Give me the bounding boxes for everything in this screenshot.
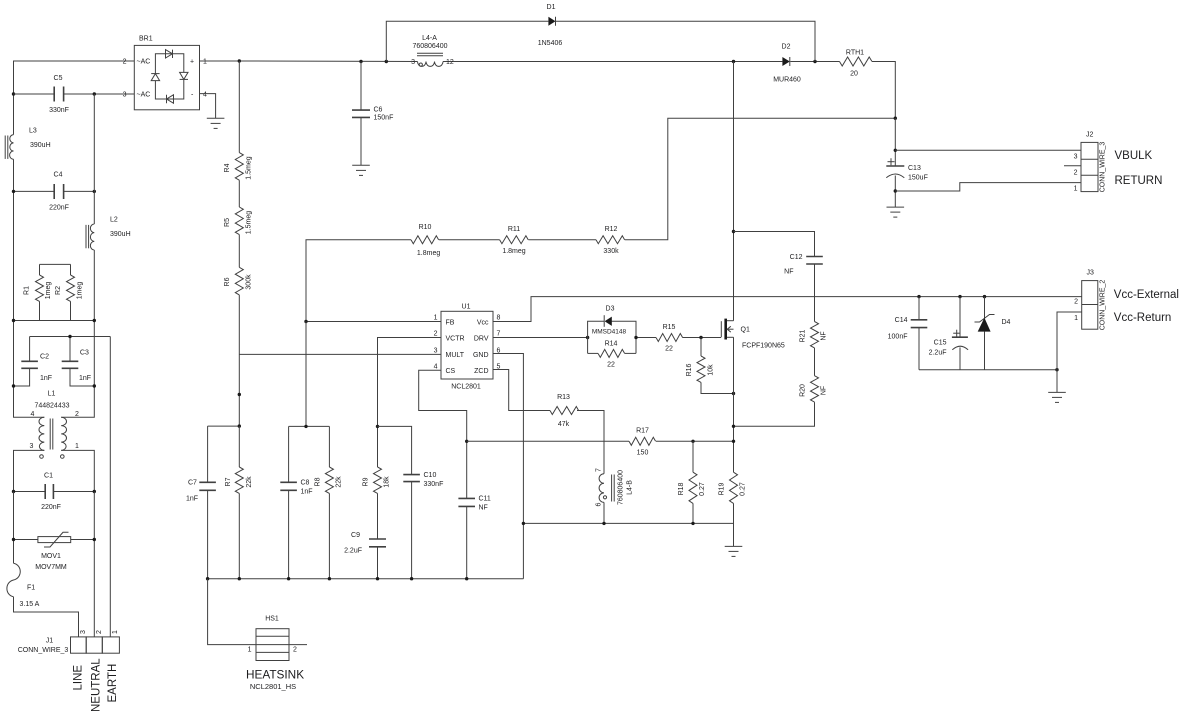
svg-text:MULT: MULT bbox=[446, 352, 465, 359]
capacitor C12 NF bbox=[734, 232, 823, 322]
wire bulk node vertical (x=895.3) bbox=[894, 118, 896, 166]
wire L1 pin3 lead bbox=[14, 450, 45, 491]
svg-text:2: 2 bbox=[1074, 169, 1078, 176]
resistor R20 NF bbox=[734, 376, 828, 427]
node junction at (523.4,523.4) bbox=[522, 522, 525, 525]
wire VCTR bracket to C10 bbox=[378, 426, 412, 474]
wire ZCD net (pin5) bbox=[493, 370, 550, 411]
node junction at (1057,369.7) bbox=[1055, 368, 1058, 371]
wire left vertical LINE (x=13.5) bbox=[13, 94, 15, 135]
heatsink HS1 NCL2801_HS bbox=[246, 616, 307, 692]
svg-text:R6: R6 bbox=[224, 277, 231, 286]
svg-text:1: 1 bbox=[75, 443, 79, 450]
svg-text:3: 3 bbox=[434, 347, 438, 354]
svg-text:L4-B: L4-B bbox=[627, 480, 634, 495]
node junction at (13.5,491.5) bbox=[12, 490, 15, 493]
svg-text:C6: C6 bbox=[374, 107, 383, 114]
node junction at (411.6,578.7) bbox=[410, 577, 413, 580]
connector J3 CONN_WIRE_2 bbox=[1074, 270, 1106, 331]
svg-text:RETURN: RETURN bbox=[1115, 175, 1163, 187]
svg-text:F1: F1 bbox=[27, 585, 35, 592]
svg-text:R12: R12 bbox=[605, 226, 618, 233]
resistor R5 1.5meg bbox=[224, 180, 253, 234]
wire Y-cap earth bracket bbox=[30, 336, 111, 338]
inductor L4-B 760806400 bbox=[596, 468, 634, 507]
node junction at (94.3,320.5) bbox=[93, 319, 96, 322]
node junction at (733.5,231.5) bbox=[732, 230, 735, 233]
capacitor C15 2.2uF polarized bbox=[929, 297, 969, 370]
node junction at (733.5,426.3) bbox=[732, 425, 735, 428]
svg-text:R8: R8 bbox=[315, 477, 322, 486]
inner diamond wires bbox=[155, 54, 183, 74]
wire Q1 source vertical bbox=[733, 337, 735, 472]
svg-text:Vcc: Vcc bbox=[477, 319, 489, 326]
node junction at (239.3,394.5) bbox=[238, 393, 241, 396]
resistor R6 300k bbox=[224, 235, 253, 427]
svg-text:3: 3 bbox=[30, 443, 34, 450]
svg-text:2: 2 bbox=[434, 331, 438, 338]
wire FB net (y=321.5) bbox=[306, 321, 441, 323]
svg-text:NF: NF bbox=[479, 505, 488, 512]
wire L4-B pin6 to gnd rail bbox=[603, 502, 605, 523]
capacitor C9 2.2uF bbox=[344, 532, 386, 579]
ground under C6 bbox=[352, 165, 370, 175]
node junction at (895.3,191) bbox=[894, 189, 897, 192]
resistor R8 22k bbox=[315, 426, 343, 578]
node junction at (636,337.5) bbox=[634, 336, 637, 339]
node junction at (239.3,426.1) bbox=[238, 424, 241, 427]
svg-text:D2: D2 bbox=[782, 44, 791, 51]
svg-text:L3: L3 bbox=[29, 128, 37, 135]
wire CS net (pin4) bbox=[419, 370, 467, 498]
svg-text:3: 3 bbox=[80, 630, 87, 634]
wire rail to heatsink HS1 bbox=[208, 579, 256, 645]
node junction at (587.6,337.5) bbox=[586, 336, 589, 339]
ground at BR1 pin4 bbox=[207, 118, 225, 128]
node junction at (13.5,539.5) bbox=[12, 538, 15, 541]
wire Vcc net (pin8) bbox=[493, 297, 1082, 322]
varistor MOV1 MOV7MM bbox=[14, 532, 95, 571]
wire CS sense (y=441.3) with R17 bbox=[467, 440, 629, 442]
svg-text:R19: R19 bbox=[719, 482, 726, 495]
svg-text:CS: CS bbox=[446, 368, 456, 375]
wire neutral vertical (x=94.3) bbox=[93, 94, 95, 224]
svg-text:R2: R2 bbox=[55, 286, 62, 295]
svg-text:1: 1 bbox=[434, 315, 438, 322]
diode D3 MMSD4148 with R14 box bbox=[588, 306, 636, 354]
node junction at (693,523.4) bbox=[691, 522, 694, 525]
svg-text:3: 3 bbox=[1074, 153, 1078, 160]
svg-text:Vcc-External: Vcc-External bbox=[1114, 289, 1179, 301]
svg-text:C4: C4 bbox=[54, 172, 63, 179]
svg-text:CONN_WIRE_2: CONN_WIRE_2 bbox=[1100, 280, 1107, 331]
resistor R18 0.27 bbox=[678, 441, 706, 523]
svg-text:2.2uF: 2.2uF bbox=[344, 548, 362, 555]
svg-text:1nF: 1nF bbox=[186, 496, 198, 503]
svg-text:CONN_WIRE_3: CONN_WIRE_3 bbox=[18, 647, 69, 654]
svg-text:L2: L2 bbox=[110, 217, 118, 224]
ground under R19 bbox=[725, 546, 743, 556]
svg-text:C7: C7 bbox=[188, 480, 197, 487]
node junction at (94.3,539.5) bbox=[93, 538, 96, 541]
svg-text:1: 1 bbox=[1074, 315, 1078, 322]
resistor RTH1 20 bbox=[840, 50, 873, 78]
svg-text:HEATSINK: HEATSINK bbox=[246, 668, 304, 682]
svg-text:FB: FB bbox=[446, 319, 455, 326]
wire VCTR net (pin2) bbox=[378, 338, 442, 427]
svg-text:1nF: 1nF bbox=[301, 489, 313, 496]
svg-text:10k: 10k bbox=[708, 364, 715, 376]
node junction at (361,61.5) bbox=[359, 60, 362, 63]
capacitor C5 bbox=[14, 75, 95, 114]
svg-text:DRV: DRV bbox=[474, 335, 489, 342]
svg-text:2: 2 bbox=[96, 630, 103, 634]
capacitor C6 150nF bbox=[352, 62, 393, 166]
svg-text:3.15 A: 3.15 A bbox=[20, 601, 40, 608]
svg-text:150: 150 bbox=[637, 450, 649, 457]
svg-text:2: 2 bbox=[293, 647, 297, 654]
capacitor C7 1nF bbox=[186, 426, 216, 579]
wire L1 pin1 lead bbox=[61, 450, 94, 491]
svg-text:C12: C12 bbox=[790, 254, 803, 261]
svg-text:BR1: BR1 bbox=[139, 36, 153, 43]
resistor R14 22 bbox=[588, 341, 636, 369]
svg-text:3: 3 bbox=[123, 92, 127, 99]
svg-text:1N5406: 1N5406 bbox=[538, 40, 563, 47]
svg-text:~AC: ~AC bbox=[137, 91, 151, 98]
node junction at (306,321.5) bbox=[304, 320, 307, 323]
diode D2 MUR460 bbox=[773, 44, 801, 84]
svg-text:390uH: 390uH bbox=[110, 231, 131, 238]
capacitor C8 1nF bbox=[280, 426, 312, 578]
svg-text:150uF: 150uF bbox=[908, 175, 928, 182]
node junction at (701,337.5) bbox=[699, 336, 702, 339]
node junction at (13.5,94) bbox=[12, 92, 15, 95]
svg-text:L4-A: L4-A bbox=[422, 35, 437, 42]
node junction at (604,523.4) bbox=[602, 522, 605, 525]
resistor R15 22 bbox=[656, 324, 683, 353]
connector J2 CONN_WIRE_3 bbox=[1064, 132, 1107, 193]
svg-text:330k: 330k bbox=[603, 248, 619, 255]
svg-text:18k: 18k bbox=[384, 476, 391, 488]
svg-text:C13: C13 bbox=[908, 165, 921, 172]
svg-text:220nF: 220nF bbox=[41, 504, 61, 511]
svg-text:RTH1: RTH1 bbox=[846, 50, 864, 57]
svg-text:R21: R21 bbox=[800, 329, 807, 342]
svg-text:1nF: 1nF bbox=[79, 375, 91, 382]
node junction at (239.3,578.7) bbox=[238, 577, 241, 580]
node junction at (733.5,61.5) bbox=[732, 60, 735, 63]
svg-text:100nF: 100nF bbox=[888, 334, 908, 341]
inductor L3 390uH bbox=[5, 128, 50, 160]
transistor Q1 FCPF190N65 MOSFET bbox=[721, 319, 785, 350]
svg-text:L1: L1 bbox=[48, 391, 56, 398]
svg-text:CONN_WIRE_3: CONN_WIRE_3 bbox=[1100, 142, 1107, 193]
svg-text:NEUTRAL: NEUTRAL bbox=[91, 658, 103, 712]
node junction at (94.3,94) bbox=[93, 92, 96, 95]
svg-text:R7: R7 bbox=[225, 477, 232, 486]
wire VBULK to J2 pin3 bbox=[895, 149, 1081, 151]
svg-text:J2: J2 bbox=[1086, 132, 1094, 139]
node junction at (306,426.4) bbox=[304, 425, 307, 428]
svg-text:GND: GND bbox=[473, 352, 489, 359]
node junction at (13.5,320.5) bbox=[12, 319, 15, 322]
svg-text:D4: D4 bbox=[1002, 319, 1011, 326]
wire between C1 and MOV1 left bbox=[13, 492, 15, 564]
node junction at (13.5,386) bbox=[12, 384, 15, 387]
svg-text:1.8meg: 1.8meg bbox=[502, 248, 525, 255]
svg-text:ZCD: ZCD bbox=[474, 368, 488, 375]
wire R1/R2 top bracket bbox=[40, 263, 71, 265]
wire C5 to BR1 pin3 bbox=[94, 93, 134, 95]
svg-text:FCPF190N65: FCPF190N65 bbox=[742, 343, 785, 350]
inner diode top bbox=[166, 50, 173, 58]
svg-text:22: 22 bbox=[665, 346, 673, 353]
svg-text:D3: D3 bbox=[606, 306, 615, 313]
svg-text:NF: NF bbox=[784, 269, 793, 276]
wire fuse to J1 pin3 bbox=[14, 597, 79, 637]
svg-text:220nF: 220nF bbox=[49, 205, 69, 212]
wire R13 to L4-B pin7 bbox=[577, 411, 604, 474]
svg-text:NCL2801: NCL2801 bbox=[451, 384, 481, 391]
svg-text:7: 7 bbox=[596, 468, 603, 472]
transformer L1 744824433 common-mode choke bbox=[30, 391, 80, 459]
capacitor C13 150uF polarized bbox=[886, 158, 928, 181]
svg-text:1.8meg: 1.8meg bbox=[417, 250, 440, 257]
svg-text:C2: C2 bbox=[40, 354, 49, 361]
svg-text:744824433: 744824433 bbox=[34, 403, 69, 410]
capacitor C14 100nF bbox=[888, 297, 928, 370]
svg-text:760806400: 760806400 bbox=[618, 470, 625, 505]
svg-text:NF: NF bbox=[821, 331, 828, 340]
svg-text:C10: C10 bbox=[424, 472, 437, 479]
svg-text:C1: C1 bbox=[44, 473, 53, 480]
svg-text:20: 20 bbox=[850, 71, 858, 78]
node junction at (895.3,118.2) bbox=[894, 117, 897, 120]
svg-text:R11: R11 bbox=[508, 226, 520, 233]
resistor R1 1meg bbox=[24, 264, 53, 320]
wire R15 to Q1 gate bbox=[683, 337, 722, 339]
svg-text:VCTR: VCTR bbox=[446, 335, 465, 342]
svg-text:0.27: 0.27 bbox=[699, 482, 706, 496]
inductor L4-A 760806400 bbox=[411, 35, 454, 66]
resistor R13 47k bbox=[550, 394, 579, 428]
resistor R11 1.8meg bbox=[500, 226, 529, 255]
node junction at (733.5,441.3) bbox=[732, 440, 735, 443]
svg-text:+: + bbox=[190, 59, 194, 66]
wire power ground rail (y=523.4) bbox=[523, 523, 733, 546]
svg-text:1meg: 1meg bbox=[45, 282, 52, 300]
wire earth vertical (x=110.3) bbox=[109, 337, 111, 637]
wire Vcc-Return bottom rail bbox=[919, 369, 1057, 371]
inner diode bottom bbox=[167, 95, 174, 103]
resistor R12 330k bbox=[596, 226, 625, 255]
svg-text:390uH: 390uH bbox=[30, 142, 51, 149]
svg-text:2: 2 bbox=[123, 59, 127, 66]
resistor R21 NF bbox=[800, 322, 828, 376]
svg-text:1: 1 bbox=[248, 647, 252, 654]
svg-text:C3: C3 bbox=[80, 350, 89, 357]
wire signal-ground bottom rail (y=578.7) bbox=[208, 578, 524, 580]
wire MULT net (y=354.4) bbox=[239, 353, 441, 355]
ground at J3 return bbox=[1048, 392, 1066, 402]
wire rectified rail (y=61.5) bbox=[239, 60, 417, 63]
svg-text:0.27: 0.27 bbox=[740, 482, 747, 496]
svg-text:LINE: LINE bbox=[73, 665, 85, 691]
svg-text:NF: NF bbox=[821, 386, 828, 395]
wire Q1 drain vertical bbox=[733, 62, 735, 321]
svg-text:8: 8 bbox=[497, 315, 501, 322]
wire BR1 pin1 to rail bbox=[200, 60, 240, 62]
node junction at (466.7,578.7) bbox=[465, 577, 468, 580]
svg-text:1: 1 bbox=[112, 630, 119, 634]
wire AC line top rail to BR1 pin2 bbox=[14, 61, 135, 94]
svg-text:330nF: 330nF bbox=[424, 481, 444, 488]
node junction at (919,296.6) bbox=[917, 295, 920, 298]
svg-text:R10: R10 bbox=[419, 224, 432, 231]
resistor R10 1.8meg bbox=[411, 224, 440, 257]
svg-text:R17: R17 bbox=[636, 428, 649, 435]
svg-text:R16: R16 bbox=[686, 363, 693, 376]
ground under C13 bbox=[887, 207, 905, 217]
svg-text:R4: R4 bbox=[224, 163, 231, 172]
inner diode left bbox=[151, 74, 159, 81]
wire R1/R2 bottom rail bbox=[14, 320, 95, 322]
svg-text:EARTH: EARTH bbox=[107, 664, 119, 703]
wire C7 top bracket to R7 bbox=[208, 425, 240, 427]
capacitor C4 bbox=[14, 172, 95, 212]
svg-text:NCL2801_HS: NCL2801_HS bbox=[250, 682, 296, 691]
node junction at (94.3,386) bbox=[93, 384, 96, 387]
svg-text:C14: C14 bbox=[895, 317, 908, 324]
wire between C1 and MOV1 right bbox=[93, 492, 95, 637]
resistor R16 10k bbox=[686, 338, 734, 394]
connector J1 CONN_WIRE_3 bbox=[18, 630, 120, 654]
svg-text:C15: C15 bbox=[934, 340, 947, 347]
inductor L2 390uH bbox=[86, 217, 131, 251]
svg-text:2: 2 bbox=[75, 411, 79, 418]
zener diode D4 bbox=[975, 297, 1011, 370]
svg-text:J1: J1 bbox=[46, 637, 54, 644]
svg-text:D1: D1 bbox=[547, 4, 556, 11]
resistor R7 22k bbox=[225, 426, 253, 579]
svg-text:R18: R18 bbox=[678, 482, 685, 495]
svg-text:R20: R20 bbox=[800, 384, 807, 397]
node junction at (13.5,191.4) bbox=[12, 190, 15, 193]
svg-text:7: 7 bbox=[497, 331, 501, 338]
svg-text:2.2uF: 2.2uF bbox=[929, 350, 947, 357]
node junction at (895.3,150.3) bbox=[894, 149, 897, 152]
wire to J3 pin1 bbox=[1057, 312, 1082, 370]
node junction at (815,61.5) bbox=[813, 60, 816, 63]
svg-text:150nF: 150nF bbox=[374, 115, 394, 122]
svg-text:J3: J3 bbox=[1087, 270, 1095, 277]
svg-text:R13: R13 bbox=[557, 394, 570, 401]
svg-text:VBULK: VBULK bbox=[1115, 150, 1153, 162]
wire D1 bypass branch bbox=[386, 21, 548, 61]
svg-text:47k: 47k bbox=[558, 421, 570, 428]
svg-text:330nF: 330nF bbox=[49, 107, 69, 114]
capacitor C11 NF bbox=[458, 496, 491, 579]
svg-text:~AC: ~AC bbox=[137, 59, 151, 66]
wire J3 ground stub bbox=[1056, 370, 1058, 393]
svg-text:R14: R14 bbox=[605, 341, 618, 348]
svg-text:MUR460: MUR460 bbox=[773, 77, 801, 84]
wire FB node down to C8/R8 (x=306) bbox=[305, 322, 307, 427]
capacitor C1 220nF bbox=[14, 473, 95, 512]
node junction at (377.5,426.4) bbox=[376, 425, 379, 428]
svg-text:1.5meg: 1.5meg bbox=[246, 211, 253, 234]
svg-text:Vcc-Return: Vcc-Return bbox=[1114, 312, 1172, 324]
svg-text:C5: C5 bbox=[54, 75, 63, 82]
node junction at (288.6,578.7) bbox=[287, 577, 290, 580]
svg-text:R15: R15 bbox=[663, 324, 676, 331]
svg-text:22k: 22k bbox=[246, 476, 253, 488]
svg-text:MOV7MM: MOV7MM bbox=[35, 564, 67, 571]
svg-text:760806400: 760806400 bbox=[412, 43, 447, 50]
svg-text:C11: C11 bbox=[479, 496, 491, 503]
svg-text:1.5meg: 1.5meg bbox=[246, 156, 253, 179]
resistor R4 1.5meg bbox=[224, 61, 253, 180]
node junction at (466.7,441.3) bbox=[465, 440, 468, 443]
svg-text:6: 6 bbox=[596, 502, 603, 506]
wire BR1 pin4 to ground bbox=[200, 94, 216, 119]
svg-text:300k: 300k bbox=[246, 274, 253, 290]
svg-text:1nF: 1nF bbox=[40, 375, 52, 382]
node junction at (329.4,578.7) bbox=[328, 577, 331, 580]
fuse F1 3.15A bbox=[7, 563, 40, 608]
svg-text:1: 1 bbox=[203, 59, 207, 66]
node junction at (377.5,578.7) bbox=[376, 577, 379, 580]
resistor R17 150 bbox=[629, 428, 656, 457]
wire C13 to ground bbox=[894, 176, 896, 208]
svg-text:1meg: 1meg bbox=[77, 282, 84, 300]
wire C8/R8 top bracket bbox=[289, 425, 330, 427]
IC U1 NCL2801 bbox=[434, 304, 501, 391]
svg-text:12: 12 bbox=[446, 59, 454, 66]
node junction at (94.3,191.4) bbox=[93, 190, 96, 193]
node junction at (94.3,491.5) bbox=[93, 490, 96, 493]
svg-text:Q1: Q1 bbox=[741, 327, 750, 334]
node junction at (693,441.3) bbox=[691, 440, 694, 443]
svg-text:R1: R1 bbox=[24, 286, 31, 295]
svg-text:2: 2 bbox=[1074, 299, 1078, 306]
wire R10 divider top (y=239.7) bbox=[306, 240, 411, 322]
inner diode right bbox=[180, 72, 188, 79]
svg-text:4: 4 bbox=[31, 411, 35, 418]
svg-text:R9: R9 bbox=[363, 477, 370, 486]
resistor R9 18k bbox=[363, 426, 391, 538]
svg-text:3: 3 bbox=[411, 59, 415, 66]
resistor R2 1meg bbox=[55, 264, 84, 320]
wire D3/R14 to R15 bbox=[636, 337, 656, 339]
wire DRV net (pin7) bbox=[493, 337, 588, 339]
node junction at (386.3,61.5) bbox=[385, 60, 388, 63]
svg-text:HS1: HS1 bbox=[265, 616, 279, 623]
svg-text:4: 4 bbox=[203, 92, 207, 99]
node junction at (239.3,61) bbox=[238, 59, 241, 62]
svg-text:R5: R5 bbox=[224, 218, 231, 227]
svg-text:MOV1: MOV1 bbox=[41, 553, 61, 560]
diode D1 1N5406 bbox=[538, 4, 563, 47]
svg-text:C8: C8 bbox=[301, 480, 310, 487]
svg-text:22k: 22k bbox=[336, 476, 343, 488]
svg-text:22: 22 bbox=[607, 362, 615, 369]
capacitor C3 1nF bbox=[62, 337, 95, 387]
node junction at (984.5,296.6) bbox=[983, 295, 986, 298]
wire GND net (pin6) bbox=[493, 354, 523, 579]
svg-text:C9: C9 bbox=[351, 532, 360, 539]
